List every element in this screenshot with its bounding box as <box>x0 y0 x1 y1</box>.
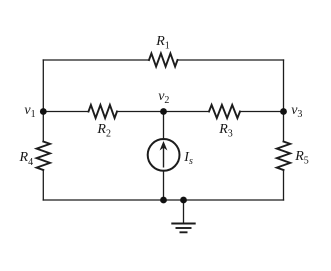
node v1 dot <box>40 108 47 115</box>
wire middle v2 to R3 <box>164 111 210 113</box>
wire middle R3 to v3 <box>240 111 284 113</box>
resistor R3 <box>209 105 240 118</box>
resistor R1 <box>149 53 178 66</box>
wire right rail lower <box>283 170 285 200</box>
wire current source to bottom <box>163 171 165 201</box>
svg-text:R3: R3 <box>218 122 233 140</box>
svg-text:Is: Is <box>183 150 193 167</box>
wire top-left segment <box>43 59 149 61</box>
svg-text:v1: v1 <box>24 103 35 120</box>
resistor R4 <box>37 142 50 171</box>
svg-text:R4: R4 <box>19 150 34 168</box>
wire middle R2 to v2 <box>117 111 164 113</box>
ground bars <box>171 224 195 233</box>
svg-text:R5: R5 <box>294 149 309 167</box>
wire bottom <box>43 199 283 201</box>
wire right rail upper <box>283 60 285 142</box>
node bottom-center dot (current source) <box>160 197 167 204</box>
current source Is circle <box>148 139 180 171</box>
ground stem <box>183 200 185 224</box>
resistor R5 <box>277 142 290 171</box>
wire top-right segment <box>178 59 284 61</box>
node bottom-ground dot <box>180 197 187 204</box>
resistor R2 <box>89 105 118 118</box>
node v2 dot <box>160 108 167 115</box>
svg-text:v2: v2 <box>158 89 169 106</box>
current source arrow <box>160 142 166 168</box>
wire left rail lower <box>42 170 44 200</box>
svg-text:R2: R2 <box>96 122 111 140</box>
svg-text:R1: R1 <box>155 34 170 52</box>
wire left rail upper <box>42 60 44 142</box>
node v3 dot <box>280 108 287 115</box>
wire v2 down to current source <box>163 112 165 140</box>
wire middle v1 to R2 <box>43 111 88 113</box>
svg-text:v3: v3 <box>291 103 302 120</box>
